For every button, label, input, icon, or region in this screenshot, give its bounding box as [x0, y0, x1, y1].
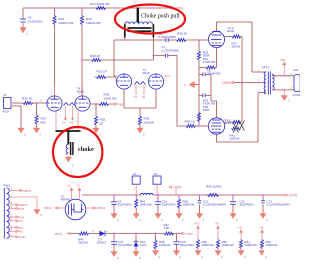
- capacitor C9: [111, 195, 132, 222]
- svg-text:U2: U2: [153, 172, 157, 176]
- svg-text:+280V: +280V: [221, 81, 231, 85]
- node 0V column: [215, 222, 234, 260]
- capacitor C7: [162, 45, 181, 57]
- capacitor C12: [196, 195, 226, 222]
- svg-text:100K/2W: 100K/2W: [183, 203, 195, 207]
- connector J2 RCA: [3, 93, 13, 114]
- svg-text:H4: H4: [260, 226, 264, 230]
- heater pins input tubes: [63, 103, 75, 125]
- svg-text:280V1: 280V1: [55, 232, 64, 236]
- svg-text:choke: choke: [78, 146, 94, 153]
- svg-text:+280V: +280V: [173, 186, 183, 190]
- node +280V psu: [169, 186, 183, 195]
- svg-text:FB1: FB1: [281, 58, 287, 62]
- svg-text:RCA: RCA: [3, 110, 10, 114]
- resistor R27 screen: [225, 35, 243, 83]
- svg-text:110V: 110V: [140, 243, 147, 247]
- wire top B+ rail: [23, 7, 172, 9]
- resistor R28: [177, 31, 209, 41]
- node +270V top: [170, 6, 184, 10]
- wire +280V to OPT pin2: [234, 82, 267, 84]
- svg-text:33uF/450V: 33uF/450V: [240, 203, 254, 207]
- svg-text:100R/1W: 100R/1W: [245, 243, 257, 247]
- resistor R41 crossed out: [230, 121, 245, 141]
- triode T3b splitter: [148, 73, 170, 90]
- svg-text:-100V: -100V: [185, 232, 193, 236]
- svg-text:R34 1K: R34 1K: [22, 97, 33, 101]
- ground C4: [20, 28, 28, 37]
- junction dots top rail: [54, 7, 56, 9]
- ground R39: [137, 128, 145, 137]
- resistor R33 cathode: [216, 48, 218, 68]
- svg-text:U1: U1: [133, 172, 137, 176]
- svg-text:68uF/100V: 68uF/100V: [180, 243, 194, 247]
- transformer PW1: [4, 184, 11, 239]
- wire PW1 pin9: [9, 234, 25, 239]
- wire PW1 pin4: [9, 206, 24, 211]
- ground R37: [33, 128, 41, 137]
- resistor R32: [95, 70, 117, 79]
- svg-text:100k/0.5W: 100k/0.5W: [86, 21, 101, 25]
- svg-text:150/1W: 150/1W: [230, 137, 240, 141]
- svg-text:56K: 56K: [41, 120, 47, 124]
- pentode V1.2: [209, 26, 235, 48]
- svg-text:FB2: FB2: [118, 103, 124, 107]
- resistor R35b: [198, 113, 201, 122]
- svg-text:22k/8.5W: 22k/8.5W: [104, 96, 117, 100]
- pentode V1.4: [208, 118, 231, 134]
- svg-text:R32 1K: R32 1K: [97, 70, 108, 74]
- resistor R39: [139, 116, 155, 128]
- wire PW1 pin3: [9, 202, 28, 207]
- svg-text:EL84: EL84: [228, 29, 235, 33]
- capacitor C10: [155, 195, 176, 222]
- resistor R47: [164, 223, 174, 235]
- svg-text:R40 1K: R40 1K: [185, 120, 196, 124]
- triode T4a input: [47, 85, 62, 118]
- capacitor C6: [159, 32, 178, 42]
- wire PW1 pin7: [9, 225, 23, 230]
- svg-text:6N23: 6N23: [143, 71, 150, 75]
- svg-text:GND: GND: [19, 235, 25, 239]
- node +280V: [221, 81, 234, 85]
- svg-text:100k/1W: 100k/1W: [159, 243, 171, 247]
- wire splitter cathode tail: [124, 89, 156, 116]
- resistor R38: [90, 54, 101, 62]
- svg-text:OPT1: OPT1: [262, 66, 270, 70]
- wire V1.2 plate: [217, 22, 253, 72]
- svg-text:T4: T4: [77, 87, 81, 91]
- svg-text:R28 1K: R28 1K: [177, 31, 188, 35]
- svg-text:CON2: CON2: [293, 93, 301, 97]
- capacitor C15: [173, 234, 194, 260]
- resistor R24: [81, 8, 101, 96]
- svg-text:390K: 390K: [203, 108, 210, 112]
- triode T3a splitter: [116, 74, 131, 89]
- node -100V: [182, 232, 193, 236]
- svg-text:0.1uF/630V(MKP): 0.1uF/630V(MKP): [203, 203, 226, 207]
- svg-text:+270V: +270V: [288, 194, 298, 198]
- svg-text:J2: J2: [3, 93, 6, 97]
- svg-text:100k/0.5W: 100k/0.5W: [59, 21, 74, 25]
- svg-text:IRF840: IRF840: [61, 198, 71, 202]
- ground OPT secondary: [281, 90, 290, 103]
- capacitor C8b: [203, 94, 205, 98]
- wire C7 down to R40 grid line: [177, 56, 186, 127]
- svg-text:PW1: PW1: [4, 184, 11, 188]
- resistor R44: [133, 195, 152, 222]
- wire PW1 pin5: [9, 214, 24, 219]
- node H3 column: [238, 226, 257, 260]
- svg-text:1K/1W: 1K/1W: [232, 45, 241, 49]
- annotation ellipse choke push pull: [115, 5, 185, 34]
- wire RCA ground branch: [13, 106, 22, 128]
- capacitor C13: [260, 195, 290, 222]
- resistor R34: [13, 97, 48, 105]
- svg-text:33uF/450V: 33uF/450V: [118, 203, 132, 207]
- resistor R35 1K: [95, 104, 106, 128]
- ground left arrow: [195, 84, 200, 86]
- svg-text:280V4: 280V4: [97, 206, 106, 210]
- resistor R45: [176, 195, 195, 222]
- svg-text:100K/2W: 100K/2W: [140, 203, 152, 207]
- connector LP1 speaker: [291, 68, 301, 97]
- node 280V1 bias: [55, 232, 71, 236]
- power supply rail wire: [82, 194, 285, 196]
- svg-text:280V1: 280V1: [23, 189, 32, 193]
- svg-text:100R/1W: 100R/1W: [202, 243, 214, 247]
- mosfet T5: [61, 195, 86, 220]
- choke L2 push pull symbol: [125, 8, 154, 38]
- svg-text:H2: H2: [19, 230, 23, 234]
- svg-text:100R/1W: 100R/1W: [266, 243, 278, 247]
- resistor R23: [53, 8, 73, 96]
- wire PW1 pin1 280V1: [9, 188, 32, 193]
- resistor R29: [198, 51, 201, 60]
- ground RCA: [18, 128, 26, 137]
- ground R35: [93, 128, 101, 137]
- wire V1.4 plate: [217, 93, 259, 142]
- ground cathode choke: [65, 155, 74, 167]
- capacitor C4: [20, 8, 44, 28]
- svg-text:33uF/450V: 33uF/450V: [162, 203, 176, 207]
- resistor R40 psu: [206, 185, 221, 197]
- heater pins splitter: [134, 82, 146, 100]
- inductor L1: [141, 193, 153, 195]
- svg-text:H3: H3: [239, 226, 243, 230]
- resistor R37: [35, 103, 47, 128]
- node H4 column: [259, 226, 278, 260]
- svg-text:1N4007: 1N4007: [97, 241, 108, 245]
- capacitor C14: [111, 234, 132, 261]
- wire R36 FB2 row: [90, 103, 96, 105]
- part U1: [132, 172, 140, 195]
- svg-text:R38 1K: R38 1K: [90, 54, 101, 58]
- node +270V psu: [285, 194, 298, 198]
- resistor R36: [96, 93, 117, 106]
- node FB2: [115, 103, 124, 107]
- svg-text:6V3: 6V3: [195, 222, 200, 226]
- part U2: [153, 172, 161, 195]
- annotation circle choke: [53, 127, 102, 177]
- svg-text:100R/1W: 100R/1W: [222, 243, 234, 247]
- svg-text:0V: 0V: [216, 222, 220, 226]
- wire PW1 pin2 to ground: [9, 194, 42, 217]
- resistor R22: [90, 2, 110, 10]
- svg-text:1k/2W: 1k/2W: [213, 185, 222, 189]
- triode T4b input: [75, 85, 90, 111]
- svg-text:LP1: LP1: [294, 68, 300, 72]
- resistor R42 screen: [225, 83, 242, 124]
- svg-text:0.1uF/630V(MKP): 0.1uF/630V(MKP): [267, 203, 290, 207]
- svg-text:47uF/250V: 47uF/250V: [118, 243, 132, 247]
- wire choke left to C6 node: [114, 38, 166, 77]
- svg-text:470/0.5W: 470/0.5W: [203, 60, 216, 64]
- resistor R40: [185, 120, 209, 128]
- wire OPT pin4: [272, 75, 294, 77]
- svg-text:22uF/250V: 22uF/250V: [28, 19, 44, 23]
- wire cathodes to choke bar: [56, 111, 78, 130]
- wire OPT pin5: [272, 89, 294, 91]
- svg-text:Choke push pull: Choke push pull: [141, 14, 180, 20]
- wire OPT pin1: [252, 71, 266, 73]
- transformer OPT1: [262, 66, 275, 95]
- wire PW1 pin8: [9, 229, 23, 234]
- capacitor C11: [230, 195, 254, 222]
- svg-text:330uF/35V: 330uF/35V: [207, 72, 221, 76]
- resistor R48: [152, 234, 170, 260]
- node 280V4 source: [86, 206, 106, 210]
- node 6V3 column: [195, 222, 214, 260]
- grid bias network column: [185, 40, 222, 126]
- wire R38 row: [82, 56, 153, 61]
- resistor R46: [78, 232, 89, 245]
- node H1 H2 drains: [68, 185, 82, 201]
- svg-text:7.5K: 7.5K: [164, 226, 170, 230]
- svg-text:0V: 0V: [19, 219, 23, 223]
- svg-text:22k/2W: 22k/2W: [144, 120, 155, 124]
- wire choke right to C7: [153, 38, 165, 56]
- zener DZ1: [133, 234, 147, 261]
- cathode choke symbol: [56, 131, 81, 155]
- svg-text:R40: R40: [206, 185, 212, 189]
- svg-text:0.22uF/630V: 0.22uF/630V: [159, 35, 178, 39]
- bias rail wire: [70, 233, 182, 235]
- wire PW1 pin6: [9, 218, 23, 223]
- capacitor C8: [203, 73, 205, 77]
- node 280V2 gate: [44, 206, 66, 210]
- svg-text:0.22uF/630V: 0.22uF/630V: [162, 48, 181, 52]
- svg-text:R22 22k/8.5W: R22 22k/8.5W: [90, 2, 110, 6]
- svg-text:33k/2W: 33k/2W: [78, 241, 88, 245]
- svg-text:280V2: 280V2: [44, 206, 53, 210]
- diode D7: [97, 231, 108, 245]
- svg-text:6V3: 6V3: [19, 207, 24, 211]
- node FB1: [281, 58, 287, 76]
- wire OPT pin3: [258, 92, 266, 94]
